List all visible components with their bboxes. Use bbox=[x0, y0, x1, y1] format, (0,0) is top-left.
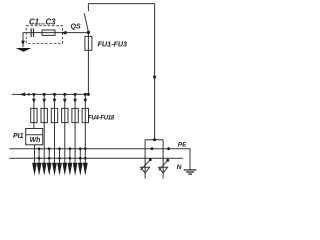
trunk wire right vertical bbox=[154, 4, 156, 140]
stub 5 bbox=[79, 149, 81, 164]
ground riser wire bbox=[22, 33, 24, 48]
N/PE stub wires to loads bbox=[39, 149, 80, 164]
stub 1 bbox=[38, 149, 40, 164]
wire QS column through fuse FU1-FU3 bbox=[87, 33, 89, 95]
wire feeder 4 bbox=[64, 94, 66, 163]
wire top horizontal bbox=[88, 3, 154, 5]
stub 2 bbox=[48, 149, 50, 164]
node dot on PE right of arresters bbox=[167, 147, 170, 150]
stub 3 bbox=[59, 149, 61, 164]
svg-text:FU1-FU3: FU1-FU3 bbox=[98, 39, 128, 48]
load arrows bottom row bbox=[32, 163, 88, 176]
wire filter to QS bbox=[23, 32, 88, 34]
ground symbol right bbox=[184, 170, 197, 174]
filter block rectangle bbox=[42, 30, 55, 35]
wire feeder 6 bbox=[84, 94, 86, 163]
svg-text:PI1: PI1 bbox=[13, 133, 24, 140]
svg-text:FU4-FU18: FU4-FU18 bbox=[88, 116, 115, 122]
fuses FU4-FU18 bbox=[31, 108, 89, 122]
dashed enclosure C1...C3 bbox=[26, 26, 62, 44]
arrester F2 gap triangle bbox=[159, 167, 168, 173]
arrester F2 slash bbox=[159, 160, 168, 170]
node F1 slash to N bbox=[149, 158, 152, 161]
stub junction dots on N bbox=[38, 157, 87, 160]
arrester F1 slash bbox=[141, 160, 151, 170]
svg-text:PE: PE bbox=[178, 141, 187, 148]
node trunk to bar bbox=[153, 138, 156, 141]
feeder drop wires bbox=[34, 94, 85, 163]
wire feeder 3 bbox=[54, 94, 56, 163]
arrowhead into filter bbox=[61, 31, 67, 35]
node QS bottom contact dot bbox=[87, 31, 90, 34]
wire feeder 1 (to meter) bbox=[33, 94, 35, 128]
arrester F1 gap triangle bbox=[141, 167, 150, 173]
tap arrowheads below bus bbox=[32, 99, 87, 103]
stub junction dots on PE bbox=[38, 147, 87, 150]
arrow on trunk wire bbox=[153, 76, 157, 81]
capacitor C1..C3 plates bbox=[31, 28, 33, 37]
arrester right leg wire bbox=[162, 140, 164, 179]
arrester left leg wire bbox=[144, 140, 146, 179]
arrowhead on ground riser bbox=[21, 41, 25, 46]
arrowhead on bus left end bbox=[20, 93, 26, 97]
svg-text:Wh: Wh bbox=[30, 137, 41, 144]
meter PI1 box bbox=[26, 129, 43, 145]
svg-text:C1...C3: C1...C3 bbox=[29, 18, 56, 27]
PE line bbox=[9, 149, 190, 170]
wire meter output bbox=[34, 145, 36, 164]
wire feeder 2 bbox=[43, 94, 45, 163]
meter box divider bbox=[26, 134, 43, 136]
node dot on PE left of arresters bbox=[151, 147, 154, 150]
arrester group top bar bbox=[145, 139, 163, 141]
wire feeder 5 bbox=[74, 94, 76, 163]
svg-text:QS: QS bbox=[71, 24, 81, 31]
switch QS blade bbox=[84, 13, 88, 32]
node F2 slash to N bbox=[166, 159, 169, 162]
fuse FU1-FU3 bbox=[85, 36, 92, 50]
node bus-column junction bbox=[87, 93, 90, 96]
node dot on bus left bbox=[28, 93, 30, 95]
wire QS top stub bbox=[87, 4, 89, 12]
N line bbox=[9, 157, 183, 159]
tap node dots on bus bbox=[32, 93, 86, 96]
bus wire bbox=[12, 93, 88, 95]
stub 4 bbox=[69, 149, 71, 164]
ground symbol left bbox=[16, 48, 32, 52]
